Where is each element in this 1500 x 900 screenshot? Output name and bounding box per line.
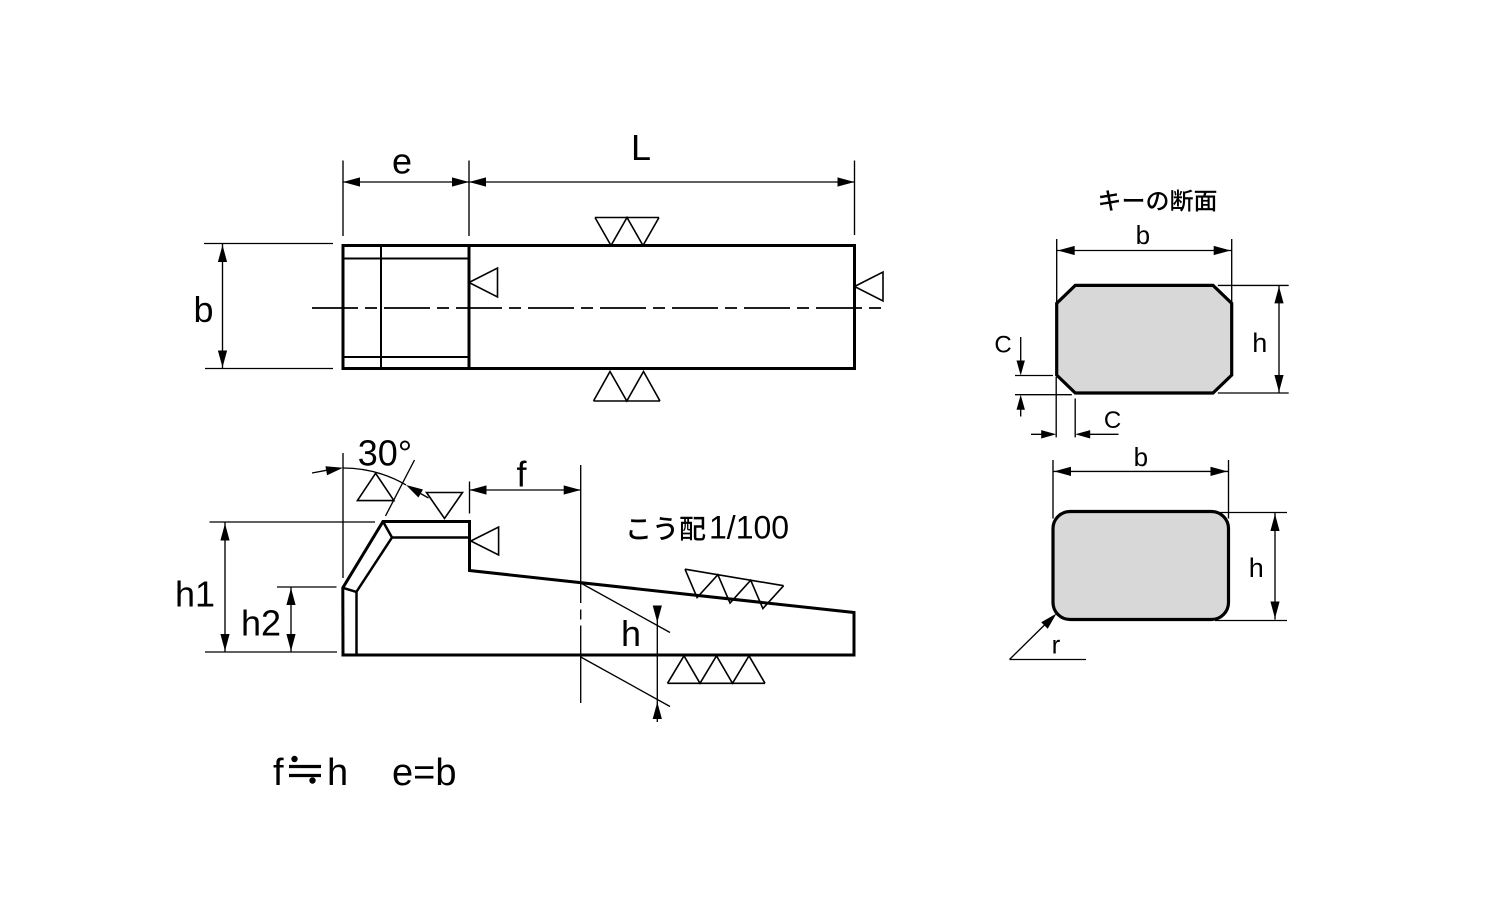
dimension C (horizontal): extension lines xyxy=(1056,377,1075,437)
section 2 dimension h: extension lines xyxy=(1215,513,1287,621)
top view: head inner edge lines xyxy=(343,246,469,369)
dimension h2: dimension line xyxy=(290,587,292,652)
dimension C (vertical): arrows xyxy=(1020,337,1022,417)
30 deg: left arrow and tail xyxy=(325,463,343,475)
surface mark: triangle on head top xyxy=(427,493,463,519)
surface mark: side triangle at head boundary xyxy=(469,268,498,297)
dimension f: left extension line xyxy=(469,482,471,514)
dimension h: oblique extension lines xyxy=(581,583,670,707)
surface mark: double triangles on bottom edge xyxy=(594,372,661,402)
svg-text:h2: h2 xyxy=(241,603,281,644)
section 2 dimension b: extension lines xyxy=(1053,460,1229,519)
dimension h: dimension line with outside arrows xyxy=(656,607,658,723)
svg-text:L: L xyxy=(631,127,651,168)
section 1 dimension b: dimension line xyxy=(1057,250,1232,252)
svg-text:f: f xyxy=(516,454,527,495)
30 deg: vertical reference line xyxy=(342,453,344,578)
svg-text:h: h xyxy=(1249,553,1264,583)
surface mark: double triangles on top edge xyxy=(595,218,659,246)
surface mark: triple triangles on slope xyxy=(681,569,784,611)
dimension b: dimension line xyxy=(222,244,224,368)
dimension e: dimension line xyxy=(343,181,469,183)
surface mark: triple triangles below bottom xyxy=(668,656,766,684)
svg-text:r: r xyxy=(1052,630,1061,660)
top view: key body outline xyxy=(343,246,855,369)
svg-text:h: h xyxy=(621,613,641,654)
dimension b: extension lines xyxy=(204,244,333,369)
svg-text:f: f xyxy=(273,752,284,794)
svg-text:b: b xyxy=(1134,442,1148,472)
section 1: chamfered octagon xyxy=(1057,285,1232,393)
svg-text:30°: 30° xyxy=(358,433,412,474)
side view: outer outline xyxy=(343,522,854,656)
title: key cross-section xyxy=(1100,190,1119,210)
svg-text:b: b xyxy=(193,289,213,330)
svg-text:h: h xyxy=(327,752,348,794)
svg-text:e=b: e=b xyxy=(392,752,456,794)
svg-text:C: C xyxy=(1104,407,1121,434)
section 2: rounded rectangle xyxy=(1053,512,1229,620)
surface mark: triangle in 30deg area xyxy=(357,473,394,500)
dimension h1: extension lines xyxy=(205,522,375,652)
section line (vertical, long) xyxy=(580,465,582,703)
top view: head/body boundary line xyxy=(468,246,471,369)
section 2 dimension b: dimension line xyxy=(1053,470,1229,472)
label slope 1/100 (koubai) xyxy=(629,519,647,539)
centerline xyxy=(312,307,886,309)
dimension f: dimension line xyxy=(470,489,581,491)
section 2 dimension h: dimension line xyxy=(1274,513,1276,620)
dimension C (vertical): extension lines xyxy=(1015,376,1072,395)
dimension L: dimension line xyxy=(469,181,855,183)
surface mark: side triangle at head right face xyxy=(471,527,499,555)
dimension h1: dimension line xyxy=(224,523,226,653)
dimension r: leader with arrow xyxy=(1010,625,1087,660)
dimension C (horizontal): arrows xyxy=(1031,433,1119,435)
side view: head chamfer inner lines xyxy=(343,522,470,656)
svg-text:b: b xyxy=(1136,220,1150,250)
svg-text:C: C xyxy=(994,332,1011,359)
svg-text:h1: h1 xyxy=(175,574,215,615)
section 1 dimension b: extension lines xyxy=(1057,239,1232,302)
dimension e: extension lines xyxy=(343,161,855,237)
30 deg: right arrow and tail xyxy=(404,481,423,497)
section 1 dimension h: dimension line xyxy=(1278,285,1280,393)
30 deg: arc xyxy=(343,468,406,485)
approx-equal symbol (drawn) xyxy=(289,767,321,776)
dimension h2: extension line xyxy=(277,586,337,588)
surface mark: side triangle at right end xyxy=(855,272,884,301)
svg-text:e: e xyxy=(392,141,412,182)
section 1 dimension h: extension lines xyxy=(1218,285,1289,393)
svg-text:1/100: 1/100 xyxy=(709,510,789,546)
svg-text:h: h xyxy=(1252,328,1267,358)
30 deg: chamfer extension line xyxy=(386,460,415,516)
